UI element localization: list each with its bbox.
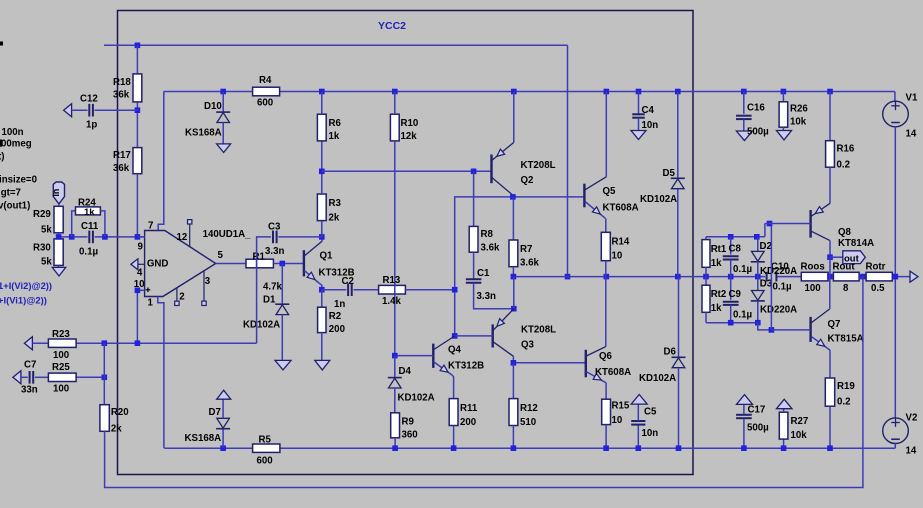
svg-text:KD220A: KD220A [760, 305, 797, 316]
svg-text:14: 14 [906, 129, 917, 140]
resistor R6 [317, 92, 341, 175]
svg-text:R2: R2 [329, 311, 341, 322]
svg-text:D1: D1 [263, 294, 276, 305]
op-amp pin 2 stub [175, 289, 185, 306]
svg-text:4.7k: 4.7k [263, 282, 282, 293]
wire -supply rail y=448.2 [164, 445, 895, 451]
svg-text:1p: 1p [86, 120, 97, 131]
wire C11 node row y=236.9 (op-amp pin 9 net) [56, 234, 145, 240]
svg-text:R13: R13 [383, 275, 401, 286]
svg-text:R3: R3 [329, 198, 342, 209]
svg-text:C12: C12 [80, 94, 98, 105]
svg-text:R19: R19 [837, 381, 855, 392]
resistor Roos [801, 262, 829, 294]
wire Q2 collector to R13/Q4 column x=454.7 [452, 197, 513, 339]
wire R23 row y=343.2 [24, 337, 256, 350]
resistor R15 [602, 383, 630, 448]
wire feedback column x=104.3 [103, 343, 105, 405]
svg-text:D2: D2 [760, 241, 772, 252]
op-amp U1 140UD1A body [145, 229, 252, 297]
diode D10 KS168A with ground [185, 92, 231, 153]
svg-text:Rt2: Rt2 [711, 289, 727, 300]
resistor R2 with ground [315, 290, 346, 370]
svg-text:lgt=7: lgt=7 [0, 188, 21, 199]
resistor R18 column wire x=137.4 [135, 45, 141, 147]
capacitor C1 [466, 268, 514, 309]
op-amp pin 5 output lead [216, 250, 246, 264]
resistor R13 [379, 275, 455, 307]
resistor R20 [100, 405, 129, 435]
transistor Q1 KT312B [304, 237, 355, 290]
svg-text:3.3n: 3.3n [477, 291, 496, 302]
svg-text:10: 10 [612, 415, 623, 426]
svg-text:C16: C16 [747, 103, 765, 114]
resistor R5 [253, 435, 280, 467]
svg-text:0.1µ: 0.1µ [733, 310, 752, 321]
svg-text:D5: D5 [663, 168, 676, 179]
resistor R10 [390, 92, 418, 356]
svg-text:R15: R15 [612, 401, 630, 412]
svg-text:R23: R23 [52, 329, 70, 340]
resistor R4 [253, 75, 280, 109]
transistor Q4 KT312B [433, 336, 484, 399]
wire Q4 base row y=355.6 [392, 353, 433, 359]
resistor R1 [246, 251, 304, 292]
svg-text:12k: 12k [401, 131, 418, 142]
transistor Q3 KT208L [493, 309, 556, 363]
svg-text:0.1µ: 0.1µ [79, 246, 98, 257]
op-amp pin 3 stub [202, 271, 211, 305]
svg-text:KT608A: KT608A [595, 367, 631, 378]
svg-text:100: 100 [53, 350, 69, 361]
diode D4 KD102A [388, 356, 435, 413]
svg-text:R30: R30 [33, 242, 51, 253]
svg-text:D10: D10 [204, 101, 222, 112]
resistor R19 [825, 350, 855, 448]
svg-text:Q5: Q5 [603, 186, 617, 197]
svg-text:4: 4 [137, 267, 143, 278]
resistor R23 [48, 329, 76, 361]
svg-text:KT208L: KT208L [521, 325, 556, 336]
svg-text:D4: D4 [399, 366, 412, 377]
svg-text:D6: D6 [664, 347, 677, 358]
svg-text:Rt1: Rt1 [711, 244, 727, 255]
wire output bus y=276.6 (left part) [511, 274, 765, 312]
left margin annotation text [0, 42, 37, 212]
resistor R17 [113, 148, 142, 237]
svg-text:KD102A: KD102A [639, 373, 676, 384]
svg-text:R9: R9 [402, 417, 415, 428]
wire Q7 base y=329.9 [771, 329, 810, 331]
svg-text:1+I(Vi2)@2)): 1+I(Vi2)@2)) [0, 280, 52, 291]
svg-text:YCC2: YCC2 [378, 20, 406, 32]
svg-text:R7: R7 [520, 244, 532, 255]
svg-text:5k: 5k [41, 257, 52, 268]
svg-text:600: 600 [257, 456, 273, 467]
wire feedback bottom y=487.5 and riser x=862.9 [105, 277, 863, 488]
svg-text:Q1: Q1 [320, 251, 334, 262]
svg-text:R17: R17 [113, 150, 131, 161]
wire R10 column crossing over R13 body [394, 285, 396, 295]
node YCC2 label [378, 20, 406, 32]
wire V1 to V2 column x=895.3 [893, 127, 899, 418]
diode D7 KS168A with inverted ground [185, 390, 231, 448]
svg-text:KD102A: KD102A [398, 393, 435, 404]
svg-text:36k: 36k [113, 90, 130, 101]
resistor R18 [113, 74, 142, 102]
svg-text:Q2: Q2 [521, 175, 534, 186]
resistor Rout [833, 262, 860, 294]
transistor Q8 KT814A [811, 203, 874, 257]
svg-text:C5: C5 [644, 407, 657, 418]
resistor R11 [449, 399, 478, 449]
svg-text:200: 200 [329, 324, 345, 335]
op-amp pin 7 label [148, 220, 153, 231]
svg-text:500µ: 500µ [747, 127, 769, 138]
capacitor C16 with ground [736, 92, 769, 141]
svg-text:insize=0: insize=0 [0, 175, 37, 186]
svg-text:7: 7 [148, 220, 153, 231]
port In with resistor R29 [51, 182, 65, 206]
svg-text:R16: R16 [837, 144, 855, 155]
wire C3 column crossing over R1 body [256, 259, 258, 268]
resistor R26 with ground [777, 92, 809, 140]
ground below R30 [52, 267, 66, 276]
resistor R9 [391, 413, 418, 448]
capacitor C8 [723, 237, 752, 277]
svg-text:0.5: 0.5 [871, 283, 885, 294]
node Q2 collector row y=196.9 to Q5 base [510, 194, 584, 200]
svg-text:2k: 2k [111, 424, 122, 435]
node output to port arrow [892, 271, 918, 282]
svg-text:1: 1 [148, 298, 154, 309]
op-amp pin 10 lead with + mark [134, 279, 151, 292]
svg-text:C9: C9 [729, 289, 742, 300]
capacitor C2 [322, 276, 379, 296]
svg-text:KT208L: KT208L [521, 160, 556, 171]
resistor R3 [317, 171, 341, 237]
svg-text:360: 360 [402, 430, 418, 441]
resistor R14 [601, 218, 630, 276]
svg-text:+I(Vi1)@2)): +I(Vi1)@2)) [0, 295, 47, 306]
op-amp pin 4 GND arrow [131, 258, 169, 278]
svg-text:Q4: Q4 [448, 345, 462, 356]
svg-text:v(out1): v(out1) [0, 201, 30, 212]
svg-text:14: 14 [906, 446, 917, 457]
svg-text:1.4k: 1.4k [382, 296, 401, 307]
svg-text:36k: 36k [113, 163, 130, 174]
svg-text:C2: C2 [342, 276, 354, 287]
svg-text:R11: R11 [460, 403, 478, 414]
node out junction x=829.9 [827, 274, 833, 280]
voltage source V2 [883, 413, 918, 457]
svg-text:KT814A: KT814A [838, 238, 874, 249]
node Q1 collector / R3 / C3 [319, 234, 325, 240]
svg-text:GND: GND [147, 258, 169, 269]
svg-text:3: 3 [205, 276, 211, 287]
svg-text:R6: R6 [329, 118, 342, 129]
capacitor C3 feedback [257, 222, 322, 344]
svg-text:R12: R12 [520, 403, 538, 414]
svg-text:Rotr: Rotr [866, 262, 886, 273]
svg-text:R10: R10 [401, 118, 419, 129]
svg-text:R20: R20 [111, 407, 129, 418]
transistor Q7 KT815A [811, 277, 864, 351]
node Q1 emitter / R2 / C2 [319, 287, 325, 293]
svg-text:C1: C1 [477, 268, 490, 279]
left margin blue expressions [0, 280, 52, 306]
svg-text:out: out [844, 253, 860, 264]
svg-text:KS168A: KS168A [185, 433, 222, 444]
svg-text:10n: 10n [642, 120, 659, 131]
capacitor C7 [21, 360, 38, 396]
svg-text:V2: V2 [906, 413, 918, 424]
node Q3 collector row y=362.8 to Q6 base [511, 360, 586, 366]
svg-text:KT608A: KT608A [603, 203, 639, 214]
resistor R12 [509, 363, 538, 448]
transistor Q6 KT608A [586, 277, 631, 383]
diode D5 KD102A [640, 92, 685, 277]
svg-text:0.1µ: 0.1µ [733, 264, 752, 275]
svg-text:8: 8 [843, 283, 849, 294]
wire output bus y=276.6 (right part after C10) [777, 276, 801, 278]
transistor Q5 KT608A [584, 92, 638, 219]
svg-text:2k: 2k [329, 213, 340, 224]
svg-text:C7: C7 [24, 360, 36, 371]
svg-text:10k: 10k [790, 117, 807, 128]
wire Q8/Q7 base tie vertical x=771.4 through C10 gap [767, 221, 773, 330]
wire op-amp V+ drop x=163.8 to pin 7 jog [158, 92, 164, 231]
wire Q3 base row y=335.9 [455, 335, 493, 337]
node Rout/Rotr junction x=862.9 [860, 274, 866, 280]
svg-text:KS168A: KS168A [185, 127, 222, 138]
svg-text:V1: V1 [906, 93, 918, 104]
svg-text:0.2: 0.2 [837, 160, 850, 171]
svg-text:0.1µ: 0.1µ [773, 282, 792, 293]
op-amp pin 12 stub [177, 220, 192, 247]
wire D3 bottom mini-rail y=322.7 [706, 320, 761, 326]
wire R25 row y=377.3 [13, 371, 107, 384]
op-amp pin 9 lead [137, 237, 144, 252]
svg-text:R29: R29 [33, 209, 51, 220]
svg-text:100: 100 [53, 384, 69, 395]
svg-text:00meg: 00meg [1, 139, 32, 150]
svg-text:10: 10 [612, 251, 623, 262]
svg-text:R5: R5 [259, 435, 272, 446]
svg-text:R4: R4 [259, 75, 272, 86]
wire D2 top mini-rail y=236.8 [706, 224, 765, 240]
resistor R25 [48, 362, 76, 395]
svg-text:Roos: Roos [801, 262, 825, 273]
svg-text:0.2: 0.2 [837, 397, 850, 408]
svg-text:100: 100 [805, 283, 821, 294]
voltage source V1 [883, 93, 918, 140]
wire +supply rail y=91.5 with corner to V1 [164, 89, 895, 102]
svg-text:KD102A: KD102A [243, 320, 280, 331]
op-amp pin 1 jog to V- rail [148, 297, 164, 449]
svg-text:9: 9 [138, 241, 144, 252]
svg-text:Q8: Q8 [838, 227, 852, 238]
svg-text:C17: C17 [748, 405, 766, 416]
svg-text:R25: R25 [52, 362, 70, 373]
resistor Rt1 [702, 237, 727, 277]
svg-text:C3: C3 [268, 222, 281, 233]
svg-text:5k: 5k [41, 225, 52, 236]
diode D1 KD102A with ground [243, 264, 291, 370]
svg-text:KD102A: KD102A [640, 194, 677, 205]
capacitor C17 with inverted ground [736, 395, 769, 449]
capacitor C12 with input port arrow [64, 94, 138, 131]
svg-text:In: In [51, 189, 61, 197]
wire Q2 base row y=171.3 [322, 169, 492, 175]
resistor R27 with inverted ground [776, 399, 808, 448]
svg-text:2: 2 [179, 292, 184, 303]
selection box frame [118, 11, 694, 475]
svg-text:Q6: Q6 [599, 351, 613, 362]
wire D3 step to Q7 base node [758, 323, 774, 333]
svg-text:1k: 1k [711, 258, 722, 269]
resistor R24 feedback loop [72, 198, 105, 237]
node out tag [827, 251, 865, 264]
diode D2 KD220A [751, 237, 797, 277]
capacitor C9 [723, 277, 752, 323]
wire Q8 collector to bus [829, 257, 831, 276]
diode D3 KD220A [751, 277, 797, 323]
svg-text:3.3n: 3.3n [265, 246, 284, 257]
svg-text:1k: 1k [711, 303, 722, 314]
resistor R30 [33, 237, 63, 268]
svg-text:10n: 10n [642, 428, 659, 439]
svg-text:1k: 1k [329, 131, 340, 142]
svg-text:C4: C4 [642, 105, 655, 116]
svg-text:100n: 100n [2, 127, 24, 138]
svg-text:R27: R27 [791, 416, 809, 427]
svg-text:KD220A: KD220A [760, 266, 797, 277]
svg-text:500µ: 500µ [747, 423, 769, 434]
svg-text:3.6k: 3.6k [481, 243, 500, 254]
svg-text:KT815A: KT815A [828, 333, 864, 344]
svg-text:R1: R1 [253, 251, 266, 262]
svg-text:D7: D7 [209, 407, 221, 418]
wire YCC2 feed (top horizontal y=45 and drop at x=567.5 to output bus) [104, 43, 570, 280]
svg-text:33n: 33n [21, 385, 38, 396]
svg-text:C11: C11 [81, 221, 99, 232]
svg-text:12: 12 [177, 232, 188, 243]
svg-text:Q3: Q3 [521, 339, 535, 350]
svg-text:1k: 1k [84, 207, 95, 218]
wire x=137.4 pin10 to R23 row [135, 288, 141, 344]
svg-text:R8: R8 [481, 229, 494, 240]
svg-text:R18: R18 [113, 77, 131, 88]
diode D6 KD102A [639, 277, 686, 449]
svg-text:600: 600 [257, 98, 273, 109]
transistor Q2 KT208L [492, 92, 556, 197]
svg-text:R14: R14 [612, 237, 630, 248]
svg-text:140UD1A_: 140UD1A_ [203, 229, 252, 240]
capacitor C11 [79, 221, 99, 257]
svg-text:5: 5 [218, 250, 224, 261]
svg-text:C8: C8 [729, 243, 742, 254]
svg-text:t): t) [0, 152, 4, 163]
svg-text:KT312B: KT312B [448, 361, 484, 372]
svg-text:R26: R26 [790, 104, 808, 115]
svg-text:3.6k: 3.6k [520, 258, 539, 269]
resistor R8 [469, 171, 500, 279]
wire Q8 base y=223.5 [765, 223, 811, 225]
capacitor C10 series on bus [767, 262, 792, 293]
capacitor C4 with ground [631, 92, 658, 140]
resistor R16 [826, 92, 855, 204]
resistor Rotr [866, 262, 893, 294]
svg-text:1n: 1n [334, 299, 345, 310]
svg-text:10k: 10k [791, 430, 808, 441]
resistor R7 [509, 197, 539, 277]
svg-text:510: 510 [520, 417, 536, 428]
resistor R29 [33, 206, 63, 237]
svg-text:200: 200 [460, 417, 476, 428]
svg-text:Q7: Q7 [828, 319, 841, 330]
resistor Rt2 [702, 277, 726, 323]
capacitor C5 with inverted ground [631, 395, 658, 449]
